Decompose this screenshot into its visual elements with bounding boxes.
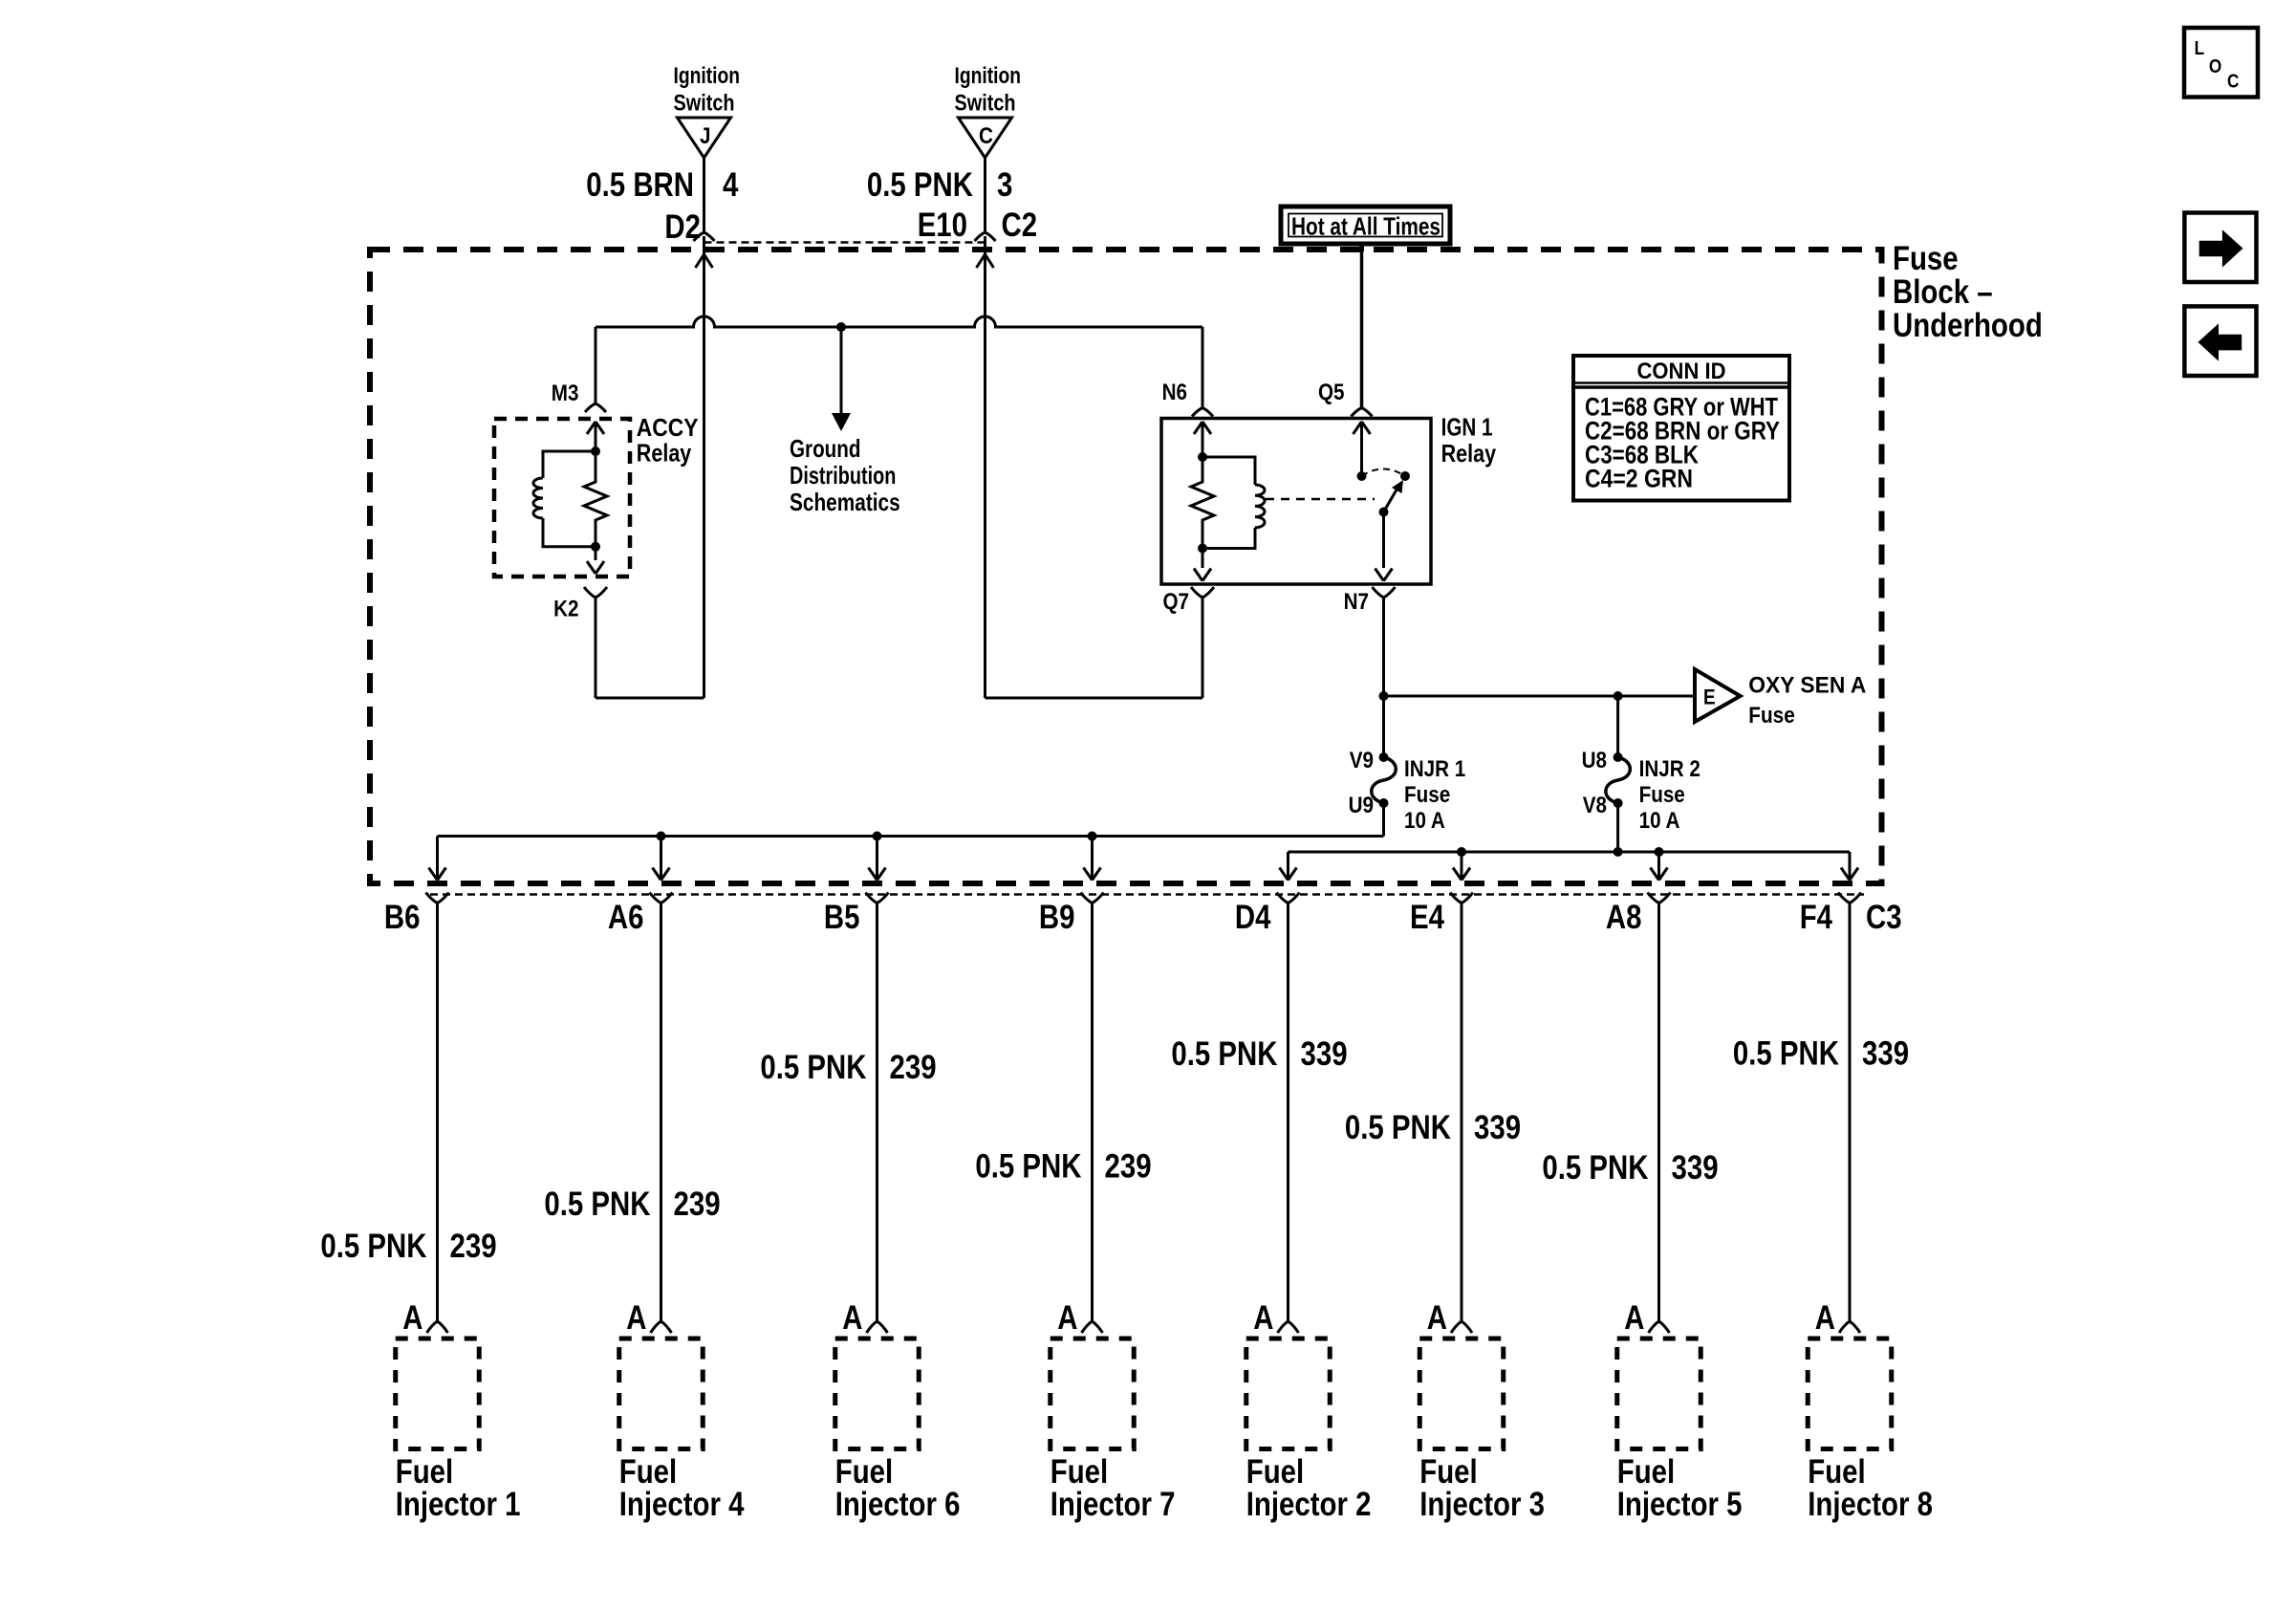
svg-text:C2: C2: [1002, 207, 1038, 244]
svg-text:Ignition: Ignition: [674, 63, 741, 89]
svg-text:Relay: Relay: [637, 439, 692, 468]
svg-text:Distribution: Distribution: [790, 461, 896, 490]
svg-text:Injector 3: Injector 3: [1419, 1486, 1545, 1523]
svg-text:Ground: Ground: [790, 434, 861, 463]
svg-text:339: 339: [1301, 1035, 1348, 1073]
svg-text:IGN 1: IGN 1: [1441, 413, 1493, 442]
svg-text:D2: D2: [664, 208, 701, 246]
svg-text:E10: E10: [918, 207, 967, 244]
svg-text:339: 339: [1474, 1109, 1521, 1146]
svg-text:A: A: [1815, 1299, 1835, 1337]
svg-text:U9: U9: [1349, 793, 1374, 818]
svg-text:Injector 2: Injector 2: [1246, 1486, 1372, 1523]
svg-text:0.5 PNK: 0.5 PNK: [320, 1228, 426, 1265]
svg-text:V9: V9: [1350, 748, 1374, 773]
svg-text:239: 239: [890, 1049, 937, 1086]
svg-text:0.5 PNK: 0.5 PNK: [760, 1049, 866, 1086]
svg-text:10 A: 10 A: [1639, 808, 1680, 834]
svg-text:Hot at All Times: Hot at All Times: [1291, 212, 1440, 241]
svg-text:K2: K2: [553, 597, 578, 622]
svg-text:C: C: [979, 123, 993, 149]
svg-text:Ignition: Ignition: [955, 63, 1022, 89]
svg-text:C4=2 GRN: C4=2 GRN: [1585, 465, 1693, 493]
svg-text:N6: N6: [1162, 380, 1187, 405]
svg-text:Relay: Relay: [1441, 439, 1497, 468]
svg-text:ACCY: ACCY: [637, 413, 699, 442]
svg-text:Underhood: Underhood: [1893, 307, 2043, 344]
svg-text:Injector 1: Injector 1: [396, 1486, 521, 1523]
svg-text:A: A: [842, 1299, 862, 1337]
svg-text:C: C: [2227, 71, 2239, 92]
svg-text:U8: U8: [1582, 748, 1607, 773]
svg-text:A8: A8: [1606, 899, 1642, 936]
svg-text:Switch: Switch: [955, 91, 1016, 117]
svg-text:Schematics: Schematics: [790, 488, 900, 516]
svg-text:Injector 6: Injector 6: [835, 1486, 961, 1523]
svg-text:0.5 PNK: 0.5 PNK: [1542, 1149, 1648, 1186]
svg-text:L: L: [2195, 38, 2205, 59]
svg-text:Injector 7: Injector 7: [1051, 1486, 1176, 1523]
svg-text:CONN ID: CONN ID: [1637, 359, 1726, 384]
svg-text:B9: B9: [1039, 899, 1075, 936]
svg-text:B6: B6: [384, 899, 421, 936]
svg-text:Fuse: Fuse: [1639, 782, 1685, 808]
svg-text:0.5 PNK: 0.5 PNK: [1733, 1035, 1839, 1073]
svg-text:0.5 PNK: 0.5 PNK: [867, 166, 973, 204]
svg-text:Block –: Block –: [1893, 273, 1993, 311]
svg-text:Injector 5: Injector 5: [1617, 1486, 1743, 1523]
svg-text:A: A: [1427, 1299, 1447, 1337]
svg-text:INJR 2: INJR 2: [1639, 756, 1700, 782]
svg-text:3: 3: [997, 166, 1012, 204]
svg-text:A: A: [1057, 1299, 1077, 1337]
svg-text:Switch: Switch: [674, 91, 735, 117]
svg-text:339: 339: [1862, 1035, 1909, 1073]
svg-text:239: 239: [1105, 1148, 1152, 1186]
svg-text:239: 239: [450, 1228, 497, 1265]
svg-text:OXY SEN A: OXY SEN A: [1748, 673, 1866, 699]
svg-text:Q7: Q7: [1163, 589, 1190, 615]
svg-text:A: A: [1624, 1299, 1644, 1337]
svg-text:V8: V8: [1583, 793, 1607, 818]
svg-text:A: A: [626, 1299, 646, 1337]
svg-text:E: E: [1703, 686, 1716, 709]
svg-text:N7: N7: [1344, 589, 1369, 615]
svg-text:239: 239: [674, 1186, 721, 1223]
svg-text:Fuse: Fuse: [1404, 782, 1450, 808]
svg-text:M3: M3: [552, 381, 579, 406]
svg-text:0.5 PNK: 0.5 PNK: [1171, 1035, 1277, 1073]
svg-text:E4: E4: [1410, 899, 1444, 936]
svg-text:10 A: 10 A: [1404, 808, 1445, 834]
svg-text:Q5: Q5: [1318, 380, 1345, 405]
svg-text:B5: B5: [824, 899, 860, 936]
svg-text:339: 339: [1672, 1149, 1719, 1186]
svg-text:Fuse: Fuse: [1748, 703, 1795, 729]
svg-text:F4: F4: [1800, 899, 1833, 936]
svg-text:0.5 BRN: 0.5 BRN: [586, 166, 694, 204]
svg-text:0.5 PNK: 0.5 PNK: [544, 1186, 650, 1223]
svg-text:INJR 1: INJR 1: [1404, 756, 1465, 782]
svg-text:D4: D4: [1235, 899, 1271, 936]
svg-text:0.5 PNK: 0.5 PNK: [975, 1148, 1081, 1186]
svg-text:J: J: [700, 123, 711, 149]
svg-text:A: A: [1253, 1299, 1273, 1337]
svg-text:Fuse: Fuse: [1893, 240, 1959, 277]
svg-text:Injector 4: Injector 4: [619, 1486, 745, 1523]
svg-text:Injector 8: Injector 8: [1808, 1486, 1933, 1523]
svg-text:A: A: [402, 1299, 422, 1337]
svg-text:O: O: [2209, 56, 2221, 77]
svg-text:0.5 PNK: 0.5 PNK: [1345, 1109, 1451, 1146]
svg-text:C3: C3: [1866, 899, 1902, 936]
svg-text:4: 4: [723, 166, 739, 204]
svg-text:A6: A6: [608, 899, 644, 936]
